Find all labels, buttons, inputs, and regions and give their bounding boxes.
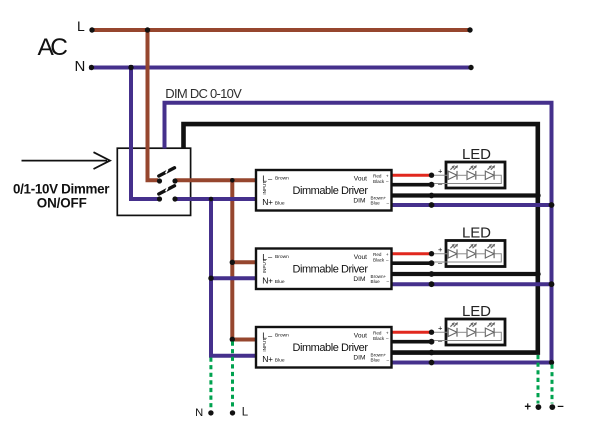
svg-text:DIM DC 0-10V: DIM DC 0-10V (165, 86, 242, 101)
svg-text:L: L (242, 407, 249, 419)
svg-text:–: – (386, 257, 389, 262)
svg-text:–: – (386, 357, 389, 362)
svg-text:+: + (268, 198, 273, 207)
svg-text:AC: AC (38, 34, 69, 61)
svg-text:–: – (386, 279, 389, 284)
svg-text:–: – (557, 400, 564, 412)
svg-text:Black: Black (373, 179, 385, 184)
svg-text:INPUT: INPUT (262, 338, 267, 352)
svg-text:INPUT: INPUT (262, 181, 267, 195)
svg-text:Blue: Blue (371, 279, 381, 284)
svg-text:Red: Red (373, 330, 382, 335)
svg-text:Brown: Brown (275, 332, 289, 338)
svg-text:Red: Red (373, 252, 382, 257)
svg-text:–: – (386, 179, 389, 184)
svg-text:+: + (438, 324, 443, 333)
svg-text:Blue: Blue (275, 201, 285, 207)
svg-text:Brown: Brown (275, 254, 289, 260)
svg-text:+: + (268, 355, 273, 364)
svg-text:+: + (438, 245, 443, 254)
svg-text:INPUT: INPUT (262, 259, 267, 273)
svg-text:L: L (77, 18, 85, 34)
svg-text:Black: Black (373, 336, 385, 341)
svg-text:Dimmable Driver: Dimmable Driver (293, 185, 369, 197)
svg-text:+: + (386, 330, 389, 335)
svg-text:+: + (524, 401, 531, 413)
svg-text:Dimmable Driver: Dimmable Driver (293, 264, 369, 276)
svg-text:N: N (75, 58, 86, 75)
svg-text:Red: Red (373, 173, 382, 178)
svg-text:N: N (195, 407, 203, 419)
svg-text:DIM: DIM (353, 355, 365, 362)
svg-text:Blue: Blue (275, 279, 285, 285)
svg-text:ON/OFF: ON/OFF (37, 195, 87, 210)
svg-text:+: + (268, 277, 273, 286)
svg-text:Vout: Vout (354, 332, 367, 339)
svg-text:0/1-10V Dimmer: 0/1-10V Dimmer (13, 181, 110, 196)
svg-text:+: + (386, 173, 389, 178)
svg-text:DIM: DIM (353, 276, 365, 283)
svg-text:Vout: Vout (354, 254, 367, 261)
svg-text:Brown: Brown (275, 175, 289, 181)
svg-text:+: + (438, 167, 443, 176)
svg-text:+: + (386, 252, 389, 257)
svg-text:–: – (386, 336, 389, 341)
svg-text:–: – (386, 200, 389, 205)
svg-text:DIM: DIM (353, 198, 365, 205)
svg-text:Blue: Blue (371, 200, 381, 205)
svg-text:Blue: Blue (371, 357, 381, 362)
svg-text:Vout: Vout (354, 175, 367, 182)
svg-text:Black: Black (373, 257, 385, 262)
svg-text:Blue: Blue (275, 358, 285, 364)
svg-text:Dimmable Driver: Dimmable Driver (293, 342, 369, 354)
